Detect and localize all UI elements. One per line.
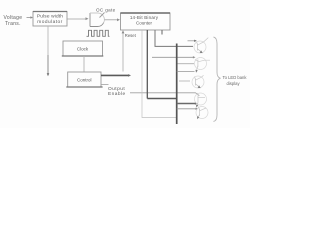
- transistor Q3: [192, 75, 204, 88]
- wire counter output Q4: [155, 30, 193, 46]
- transistor Q1: [194, 38, 208, 54]
- node voltage input label: [4, 15, 23, 27]
- node brace label: [223, 75, 248, 86]
- wire input arrow: [27, 16, 34, 18]
- transistor Q4: [195, 93, 207, 108]
- wire bus vertical (thick): [176, 44, 178, 125]
- box pulse width modulator: [33, 12, 67, 27]
- wire bus branch b3: [177, 70, 195, 72]
- svg-text:modulator: modulator: [37, 19, 62, 25]
- svg-text:14-Bit Binary: 14-Bit Binary: [130, 15, 159, 20]
- wire bus branch b6: [177, 108, 197, 110]
- wire counter output Q2: [146, 30, 148, 99]
- svg-text:Enable: Enable: [108, 91, 126, 97]
- wire clock to control: [83, 56, 85, 72]
- wire Q3 branch: [177, 63, 194, 65]
- wire modulator to gate: [67, 17, 89, 20]
- wire Q1 base stub: [188, 40, 196, 42]
- wire output enable: [101, 84, 109, 86]
- box control: [66, 72, 102, 87]
- wire bus branch b5 (thick): [177, 103, 196, 105]
- transistor Q5: [196, 107, 208, 120]
- wire counter output stub: [161, 30, 163, 35]
- svg-text:Pulse width: Pulse width: [37, 14, 63, 20]
- wire output enable continued to Q4 base: [130, 93, 199, 96]
- box clock: [62, 41, 104, 56]
- svg-text:Control: Control: [77, 77, 92, 82]
- svg-text:Clock: Clock: [77, 46, 89, 51]
- wire reset vertical: [122, 30, 125, 71]
- svg-text:Counter: Counter: [136, 21, 153, 26]
- wire bus branch b3b: [179, 80, 190, 82]
- waveform pulse train: [87, 30, 110, 36]
- counter box U2: [121, 13, 171, 30]
- svg-text:OC gate: OC gate: [96, 7, 116, 12]
- svg-text:Trans.: Trans.: [5, 21, 21, 27]
- wire Q2 elbow (thick): [147, 98, 176, 100]
- brace: [214, 37, 221, 122]
- svg-text:display: display: [227, 81, 241, 86]
- wire counter output Q3: [152, 56, 194, 58]
- wire control to reset (thick): [101, 74, 131, 77]
- svg-text:Output: Output: [108, 86, 125, 92]
- node Output Enable label: [108, 86, 126, 97]
- transistor Q2: [195, 58, 211, 73]
- svg-text:Reset: Reset: [125, 33, 137, 38]
- op-amp gate U1: [90, 13, 105, 27]
- wire counter output Q1: [142, 30, 177, 118]
- wire gate to counter: [105, 18, 121, 21]
- svg-text:To LED bank: To LED bank: [223, 75, 248, 80]
- wire from modulator down: [47, 26, 49, 55]
